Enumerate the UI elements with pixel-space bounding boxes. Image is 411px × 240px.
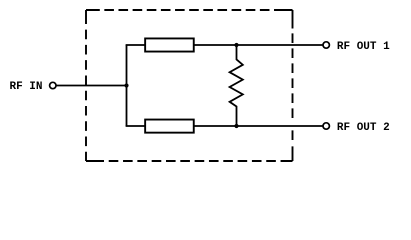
resistor R2	[145, 120, 194, 133]
svg-text:RF OUT 1: RF OUT 1	[337, 41, 390, 53]
wire bottom right	[194, 125, 323, 127]
svg-text:RF OUT 2: RF OUT 2	[337, 122, 390, 134]
wire top right	[194, 44, 323, 46]
svg-text:RF IN: RF IN	[10, 81, 43, 93]
enclosure dashed box	[86, 10, 293, 161]
output terminal J3	[323, 123, 329, 129]
node top junction	[234, 43, 238, 47]
node input junction	[124, 83, 128, 87]
resistor R1	[145, 38, 194, 51]
wire top left	[126, 44, 145, 46]
node bottom junction	[234, 124, 238, 128]
input terminal J1	[50, 82, 56, 88]
output terminal J2	[323, 42, 329, 48]
resistor R3 (shunt zigzag)	[230, 46, 243, 125]
wire input	[57, 85, 128, 87]
wire vertical bus	[126, 45, 128, 126]
wire bottom left	[126, 125, 145, 127]
